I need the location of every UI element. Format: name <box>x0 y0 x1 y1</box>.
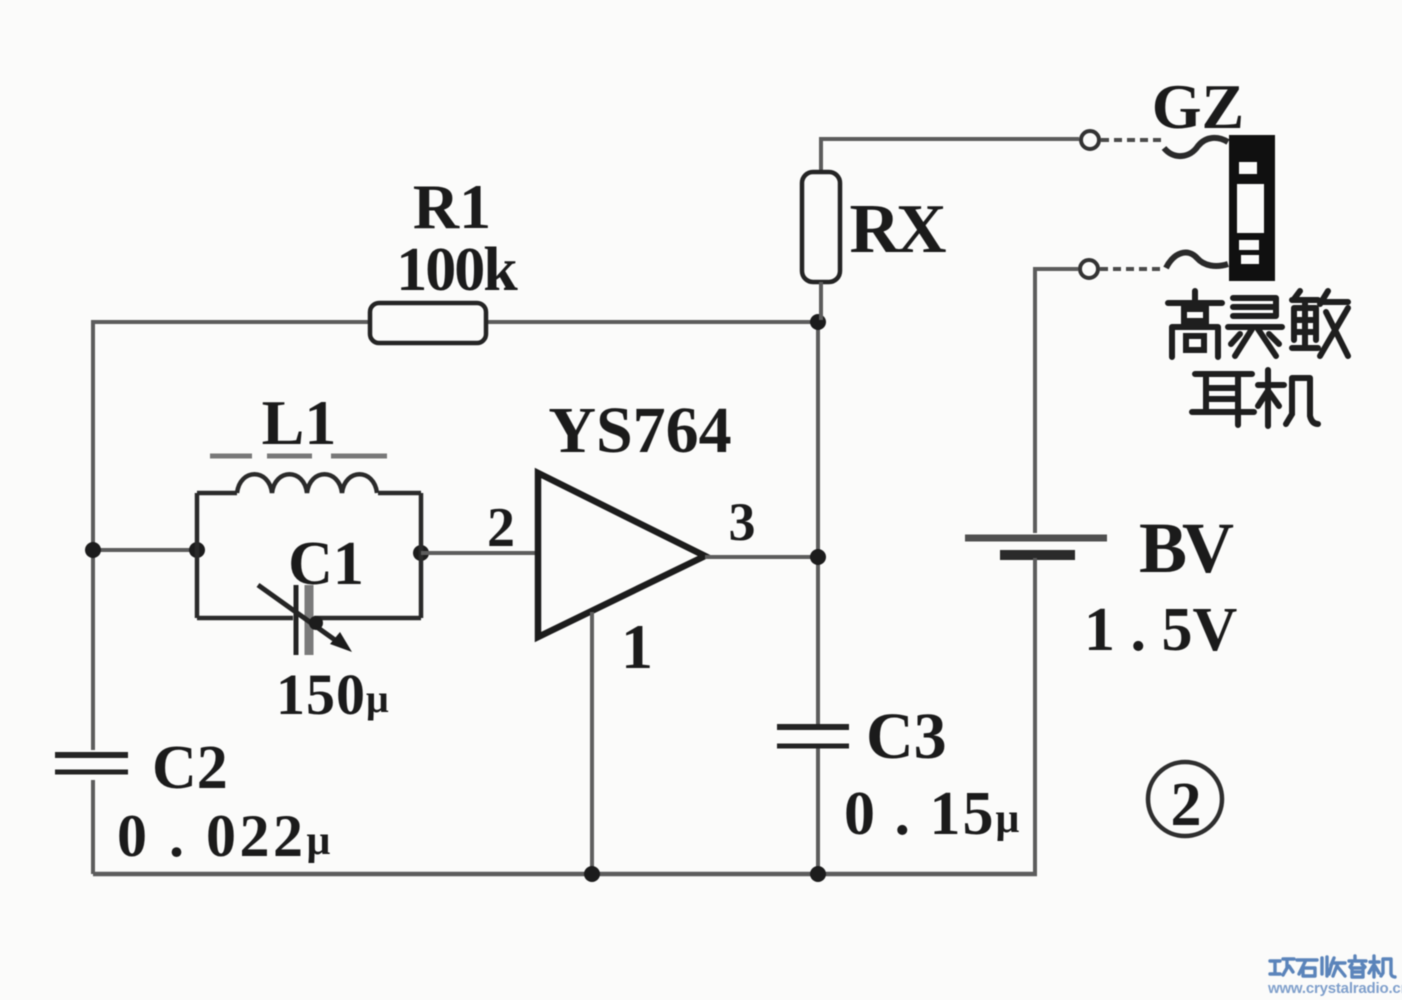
wire battery top to terminal <box>1035 269 1078 533</box>
svg-text:100k: 100k <box>396 236 518 304</box>
石 <box>1297 960 1317 976</box>
capacitor C1 plates (variable) <box>294 585 299 655</box>
wire dashed to jack bottom <box>1100 267 1164 271</box>
耳 <box>1192 374 1254 425</box>
svg-text:0 . 022μ: 0 . 022μ <box>117 803 334 869</box>
capacitor C2 plates <box>55 752 128 758</box>
svg-text:BV: BV <box>1139 508 1234 588</box>
resistor RX <box>821 139 1079 176</box>
C1 arrow <box>258 585 342 645</box>
svg-text:RX: RX <box>849 191 946 268</box>
灵 <box>1228 298 1282 356</box>
wire: pin1 down <box>590 612 594 874</box>
earphone jack body <box>1229 135 1275 281</box>
wire: output pin3 <box>705 555 818 559</box>
resistor R1 <box>370 303 486 343</box>
wire: tank to left rail <box>93 548 197 552</box>
收 <box>1322 957 1345 976</box>
高 <box>1168 291 1222 357</box>
capacitor C3 plates <box>777 724 849 730</box>
svg-text:0 . 15μ: 0 . 15μ <box>844 780 1021 848</box>
矿 <box>1270 959 1294 975</box>
svg-text:C2: C2 <box>152 734 228 802</box>
svg-text:1 . 5V: 1 . 5V <box>1084 596 1238 664</box>
svg-text:1: 1 <box>621 611 653 682</box>
terminal circle top <box>1081 131 1099 149</box>
circled figure number 2 <box>1148 762 1222 836</box>
node dot R1-RX <box>810 314 826 330</box>
core dashes above L1 <box>210 454 387 459</box>
svg-text:2: 2 <box>487 497 515 559</box>
watermark 矿石收音机 (drawn strokes) <box>1270 956 1395 977</box>
敏 <box>1292 291 1348 356</box>
op-amp YS764 triangle <box>538 473 705 637</box>
wire: top horizontal left of R1 <box>91 320 372 324</box>
wire: pin2 <box>421 551 538 555</box>
svg-text:L1: L1 <box>262 387 337 458</box>
svg-text:C3: C3 <box>866 700 947 773</box>
text 耳机 (drawn strokes) <box>1192 370 1318 426</box>
inductor L1 tank box <box>197 493 421 618</box>
hook contact top <box>1164 138 1228 156</box>
机 <box>1369 956 1395 977</box>
wire: R1 to RX node <box>484 320 820 324</box>
node dot tank left <box>189 542 205 558</box>
机 <box>1258 370 1318 426</box>
svg-text:www.crystalradio.cn: www.crystalradio.cn <box>1267 980 1402 997</box>
node dot tank right <box>413 545 429 561</box>
node dot output <box>810 549 826 565</box>
inductor L1 coil bumps <box>237 474 377 493</box>
wire: bottom rail <box>93 872 1037 877</box>
svg-text:C1: C1 <box>288 530 364 598</box>
wire: vertical output rail <box>816 322 820 874</box>
node dot pin1-bottom <box>584 866 600 882</box>
svg-text:2: 2 <box>1171 771 1202 839</box>
terminal circle bottom <box>1080 260 1098 278</box>
svg-text:R1: R1 <box>413 171 491 242</box>
svg-text:YS764: YS764 <box>548 394 731 467</box>
battery BV plates <box>965 535 1107 542</box>
node dot C1 plate-bottom edge <box>309 616 323 630</box>
node dot left rail / tank <box>85 542 101 558</box>
svg-text:150μ: 150μ <box>276 662 390 727</box>
svg-text:GZ: GZ <box>1152 71 1244 142</box>
wire dashed to GZ <box>1101 138 1164 142</box>
wire battery bottom <box>1033 558 1037 874</box>
text 高灵敏 (drawn strokes) <box>1168 291 1348 357</box>
音 <box>1349 956 1366 977</box>
hook contact bottom <box>1166 253 1228 268</box>
wire: left vertical rail <box>91 322 95 874</box>
node dot output-bottom <box>810 866 826 882</box>
svg-text:3: 3 <box>729 492 756 552</box>
